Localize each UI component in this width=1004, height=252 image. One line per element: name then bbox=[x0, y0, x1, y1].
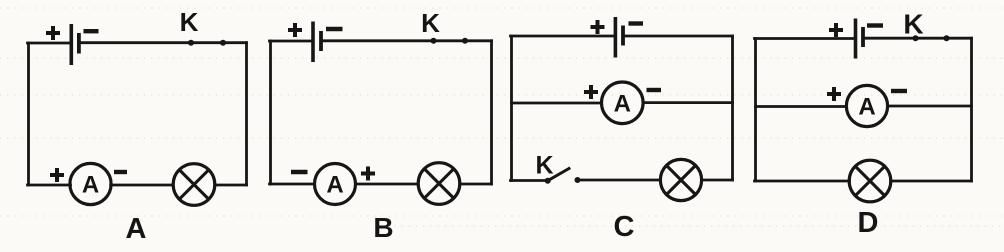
wire B bottom-right bbox=[460, 183, 492, 186]
wire D left edge bbox=[754, 39, 757, 182]
ammeter A3 minus sign bbox=[647, 88, 662, 92]
wire C bottom-left bbox=[511, 179, 546, 182]
ammeter A2 plus sign bbox=[361, 167, 375, 181]
lamp L-D circle bbox=[849, 160, 891, 202]
battery BT-C minus sign bbox=[629, 21, 644, 25]
wire D middle-left bbox=[756, 105, 847, 108]
battery BT-D minus sign bbox=[867, 23, 883, 27]
svg-text:A: A bbox=[858, 94, 875, 121]
wire C right edge bbox=[731, 36, 734, 180]
wire B top-left bbox=[270, 40, 312, 43]
switch K-C lever bbox=[548, 169, 569, 181]
wire D bottom-right bbox=[891, 180, 972, 183]
ammeter A3 circle bbox=[602, 82, 644, 124]
ammeter A3 plus sign bbox=[584, 85, 598, 99]
ammeter A2 minus sign bbox=[291, 170, 308, 174]
wire B bottom-middle bbox=[356, 183, 418, 186]
battery BT-C short plate (-) bbox=[621, 26, 625, 46]
wire D right edge bbox=[970, 38, 973, 181]
battery BT-C plus sign bbox=[591, 20, 605, 34]
wire A bottom-left bbox=[28, 184, 71, 187]
svg-text:A: A bbox=[82, 172, 99, 199]
wire A right edge bbox=[245, 43, 248, 185]
ammeter A1 minus sign bbox=[114, 170, 127, 174]
switch K-D dot 1 bbox=[913, 35, 919, 41]
wire B right edge bbox=[490, 41, 493, 184]
svg-text:B: B bbox=[373, 212, 393, 243]
ammeter A1 circle bbox=[70, 163, 111, 204]
wire A top-right bbox=[81, 41, 247, 44]
wire A left edge bbox=[27, 43, 30, 185]
ammeter A4 circle bbox=[846, 85, 887, 126]
wire C bottom-right bbox=[702, 179, 733, 182]
battery BT-A plus sign bbox=[46, 26, 60, 40]
wire C middle-right bbox=[643, 101, 732, 104]
battery BT-A short plate (-) bbox=[77, 33, 81, 54]
svg-text:K: K bbox=[535, 152, 553, 180]
svg-text:D: D bbox=[858, 207, 879, 239]
wire A bottom-middle bbox=[111, 184, 173, 187]
wire B top-right bbox=[323, 39, 492, 42]
battery BT-A minus sign bbox=[84, 29, 99, 33]
svg-text:A: A bbox=[326, 172, 343, 199]
battery BT-B minus sign bbox=[326, 27, 343, 31]
wire A bottom-right bbox=[215, 184, 247, 187]
ammeter A2 circle bbox=[315, 164, 356, 205]
battery BT-A long plate (+) bbox=[70, 24, 74, 65]
lamp L-A cross bbox=[179, 170, 208, 199]
lamp L-D cross bbox=[855, 166, 884, 195]
svg-text:K: K bbox=[903, 8, 923, 39]
wire C top-left bbox=[511, 35, 614, 38]
battery BT-C long plate (+) bbox=[614, 17, 618, 58]
battery BT-B short plate (-) bbox=[319, 31, 323, 51]
switch K-B dot 1 bbox=[431, 38, 437, 44]
switch K-A dot 2 bbox=[220, 40, 226, 46]
ammeter A4 minus sign bbox=[891, 89, 907, 93]
wire B bottom-left bbox=[270, 183, 315, 186]
battery BT-D short plate (-) bbox=[861, 27, 865, 47]
ammeter A1 plus sign bbox=[50, 168, 64, 182]
lamp L-C circle bbox=[660, 159, 701, 200]
switch K-B dot 2 bbox=[462, 38, 468, 44]
lamp L-C cross bbox=[667, 166, 696, 195]
switch K-D dot 2 bbox=[944, 35, 950, 41]
switch K-C left dot bbox=[545, 178, 551, 184]
lamp L-A circle bbox=[173, 164, 215, 206]
wire D middle-right bbox=[887, 105, 971, 108]
wire B left edge bbox=[269, 41, 272, 184]
svg-text:A: A bbox=[126, 213, 147, 245]
svg-text:C: C bbox=[614, 211, 635, 243]
switch K-C right dot bbox=[575, 177, 581, 183]
ammeter A4 plus sign bbox=[827, 87, 841, 101]
battery BT-B long plate (+) bbox=[311, 22, 315, 63]
svg-text:K: K bbox=[421, 8, 440, 38]
wire D top-right bbox=[865, 37, 972, 40]
battery BT-D plus sign bbox=[829, 23, 843, 37]
battery BT-B plus sign bbox=[288, 23, 302, 37]
wire D top-left bbox=[755, 37, 854, 40]
battery BT-D long plate (+) bbox=[854, 19, 858, 59]
wire C bottom-middle bbox=[580, 179, 661, 182]
lamp L-B circle bbox=[418, 163, 460, 205]
switch K-A dot 1 bbox=[188, 40, 194, 46]
wire C top-right bbox=[625, 35, 733, 38]
wire C middle-left bbox=[512, 102, 602, 105]
svg-text:A: A bbox=[614, 90, 631, 117]
wire C left edge bbox=[510, 36, 513, 181]
wire A top-left bbox=[28, 42, 71, 45]
svg-text:K: K bbox=[180, 7, 199, 37]
lamp L-B cross bbox=[424, 169, 453, 198]
wire D bottom-left bbox=[755, 180, 850, 183]
